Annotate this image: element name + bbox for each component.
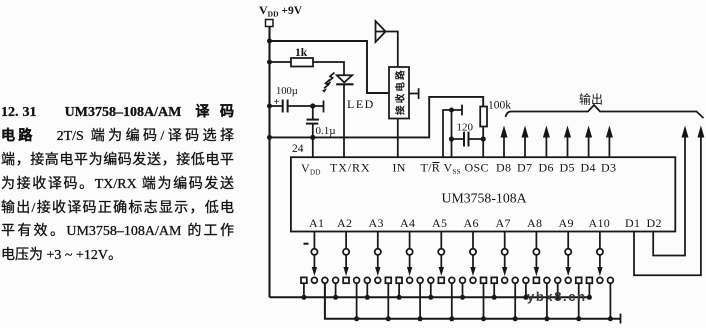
wire: main left Vdd rail (268, 27, 270, 298)
node: junction OSC (481, 136, 486, 141)
switch S9 (555, 232, 582, 322)
svg-text:UM3758-108A: UM3758-108A (442, 191, 527, 206)
svg-text:D6: D6 (539, 161, 554, 175)
bus line 2 (325, 283, 621, 319)
wire: 100u cap to node (288, 105, 324, 107)
svg-text:24: 24 (292, 143, 304, 155)
LED light arrow 1 (329, 73, 335, 82)
switch S2 (333, 232, 360, 322)
capacitor 100u plates (282, 100, 284, 113)
svg-text:A7: A7 (496, 216, 511, 230)
wire: top rail to antenna branch (270, 41, 390, 93)
wire: Vdd feed line to pin24 and 100k pullup (270, 97, 484, 137)
svg-text:0.1µ: 0.1µ (316, 125, 336, 137)
node: junction T/R Vss (449, 108, 454, 113)
switch S7 (491, 232, 518, 322)
svg-text:VDD: VDD (301, 161, 321, 177)
node: junction 0.1u (310, 103, 315, 108)
overline on R of T/R (433, 162, 440, 164)
svg-text:D4: D4 (581, 161, 596, 175)
watermark (527, 289, 587, 304)
switch S1 (301, 232, 328, 300)
bus 2 end tick (620, 314, 622, 324)
antenna ANT (376, 21, 386, 42)
svg-text:120: 120 (457, 122, 474, 134)
node: junction cap branch (267, 104, 272, 109)
svg-text:IN: IN (393, 161, 406, 175)
svg-text:VSS: VSS (444, 161, 461, 177)
svg-text:LED: LED (347, 97, 375, 111)
wire: rail to 100u cap (270, 105, 283, 107)
IC top pin labels (301, 161, 616, 177)
output arrows D8..D3 (501, 126, 613, 158)
Vdd terminal (266, 20, 274, 27)
svg-text:D8: D8 (496, 161, 511, 175)
LED triangle (337, 75, 352, 82)
svg-text:TX/RX: TX/RX (330, 161, 371, 175)
svg-text:OSC: OSC (465, 161, 489, 175)
LED light arrow 2 (324, 80, 330, 89)
wire: D2 wrap-around to output arrow (653, 138, 685, 256)
resistor 1k (291, 58, 313, 67)
wire: node to 0.1u cap (312, 106, 314, 120)
svg-text:D7: D7 (517, 161, 532, 175)
switch S3 (364, 232, 391, 322)
svg-text:A9: A9 (559, 216, 574, 230)
switch S8 (523, 232, 550, 322)
node: junction top rail (267, 39, 272, 44)
svg-text:100k: 100k (488, 100, 511, 112)
svg-text:A6: A6 (464, 216, 479, 230)
wire: resistor to LED (313, 62, 344, 75)
ground bar at cap node (323, 101, 325, 113)
node: junction 1k branch (267, 60, 272, 65)
minus dash near switch 1 (304, 243, 309, 245)
wire: receiver box right pin (409, 93, 419, 95)
ground bar right of receiver box (418, 88, 420, 99)
wire: T/R pin riser and bar (443, 110, 462, 157)
resistor 100k (480, 107, 487, 127)
svg-text:D5: D5 (560, 161, 575, 175)
wire: 100k to OSC pin (482, 127, 484, 158)
svg-text:100µ: 100µ (276, 86, 298, 97)
wire: LED cathode to TX/RX pin (343, 84, 345, 157)
LED cathode bar (336, 83, 353, 85)
ground bar at T/R node (461, 105, 463, 116)
switch S10 (587, 232, 614, 322)
wire: rail to resistor (270, 61, 292, 63)
paragraph text block (1, 101, 234, 268)
svg-text:A3: A3 (369, 216, 384, 230)
node: junction pin24 (310, 135, 315, 140)
svg-text:D3: D3 (601, 161, 616, 175)
wire: receiver box output to IN pin (397, 119, 399, 158)
svg-text:接收电路: 接收电路 (395, 68, 407, 115)
IC bottom pin labels (309, 216, 662, 230)
switch S6 (460, 232, 487, 322)
svg-text:VDD +9V: VDD +9V (259, 3, 303, 19)
wire: Vss pin riser (451, 110, 453, 157)
IC UM3758-108A body (291, 157, 675, 231)
svg-text:输出: 输出 (579, 92, 603, 107)
svg-text:+: + (274, 97, 280, 108)
svg-text:A5: A5 (432, 216, 447, 230)
wire: 120 cap right lead (469, 138, 484, 140)
node: junction Vss 120 (449, 136, 454, 141)
bus line 1 (270, 296, 592, 298)
svg-text:A1: A1 (309, 216, 324, 230)
wire: D1 wrap-around to output arrow (634, 138, 701, 276)
svg-text:D1: D1 (625, 216, 640, 230)
svg-text:D2: D2 (647, 216, 662, 230)
capacitor 0.1u plates (307, 119, 319, 121)
switch S5 (428, 232, 455, 322)
brace for outputs (506, 105, 704, 118)
node: junction feed left (267, 135, 272, 140)
wire: 0.1u cap to Vdd feed line (312, 124, 314, 138)
switch S4 (396, 232, 423, 322)
svg-text:A8: A8 (527, 216, 542, 230)
wire: pin 24 drop (312, 137, 314, 157)
receiver box 接收电路 (389, 67, 409, 119)
capacitor 120 plates (463, 132, 465, 147)
svg-text:1k: 1k (295, 47, 308, 59)
svg-text:A10: A10 (589, 216, 611, 230)
wire: 120 cap left lead (452, 138, 465, 140)
svg-text:A4: A4 (400, 216, 415, 230)
svg-text:A2: A2 (337, 216, 352, 230)
